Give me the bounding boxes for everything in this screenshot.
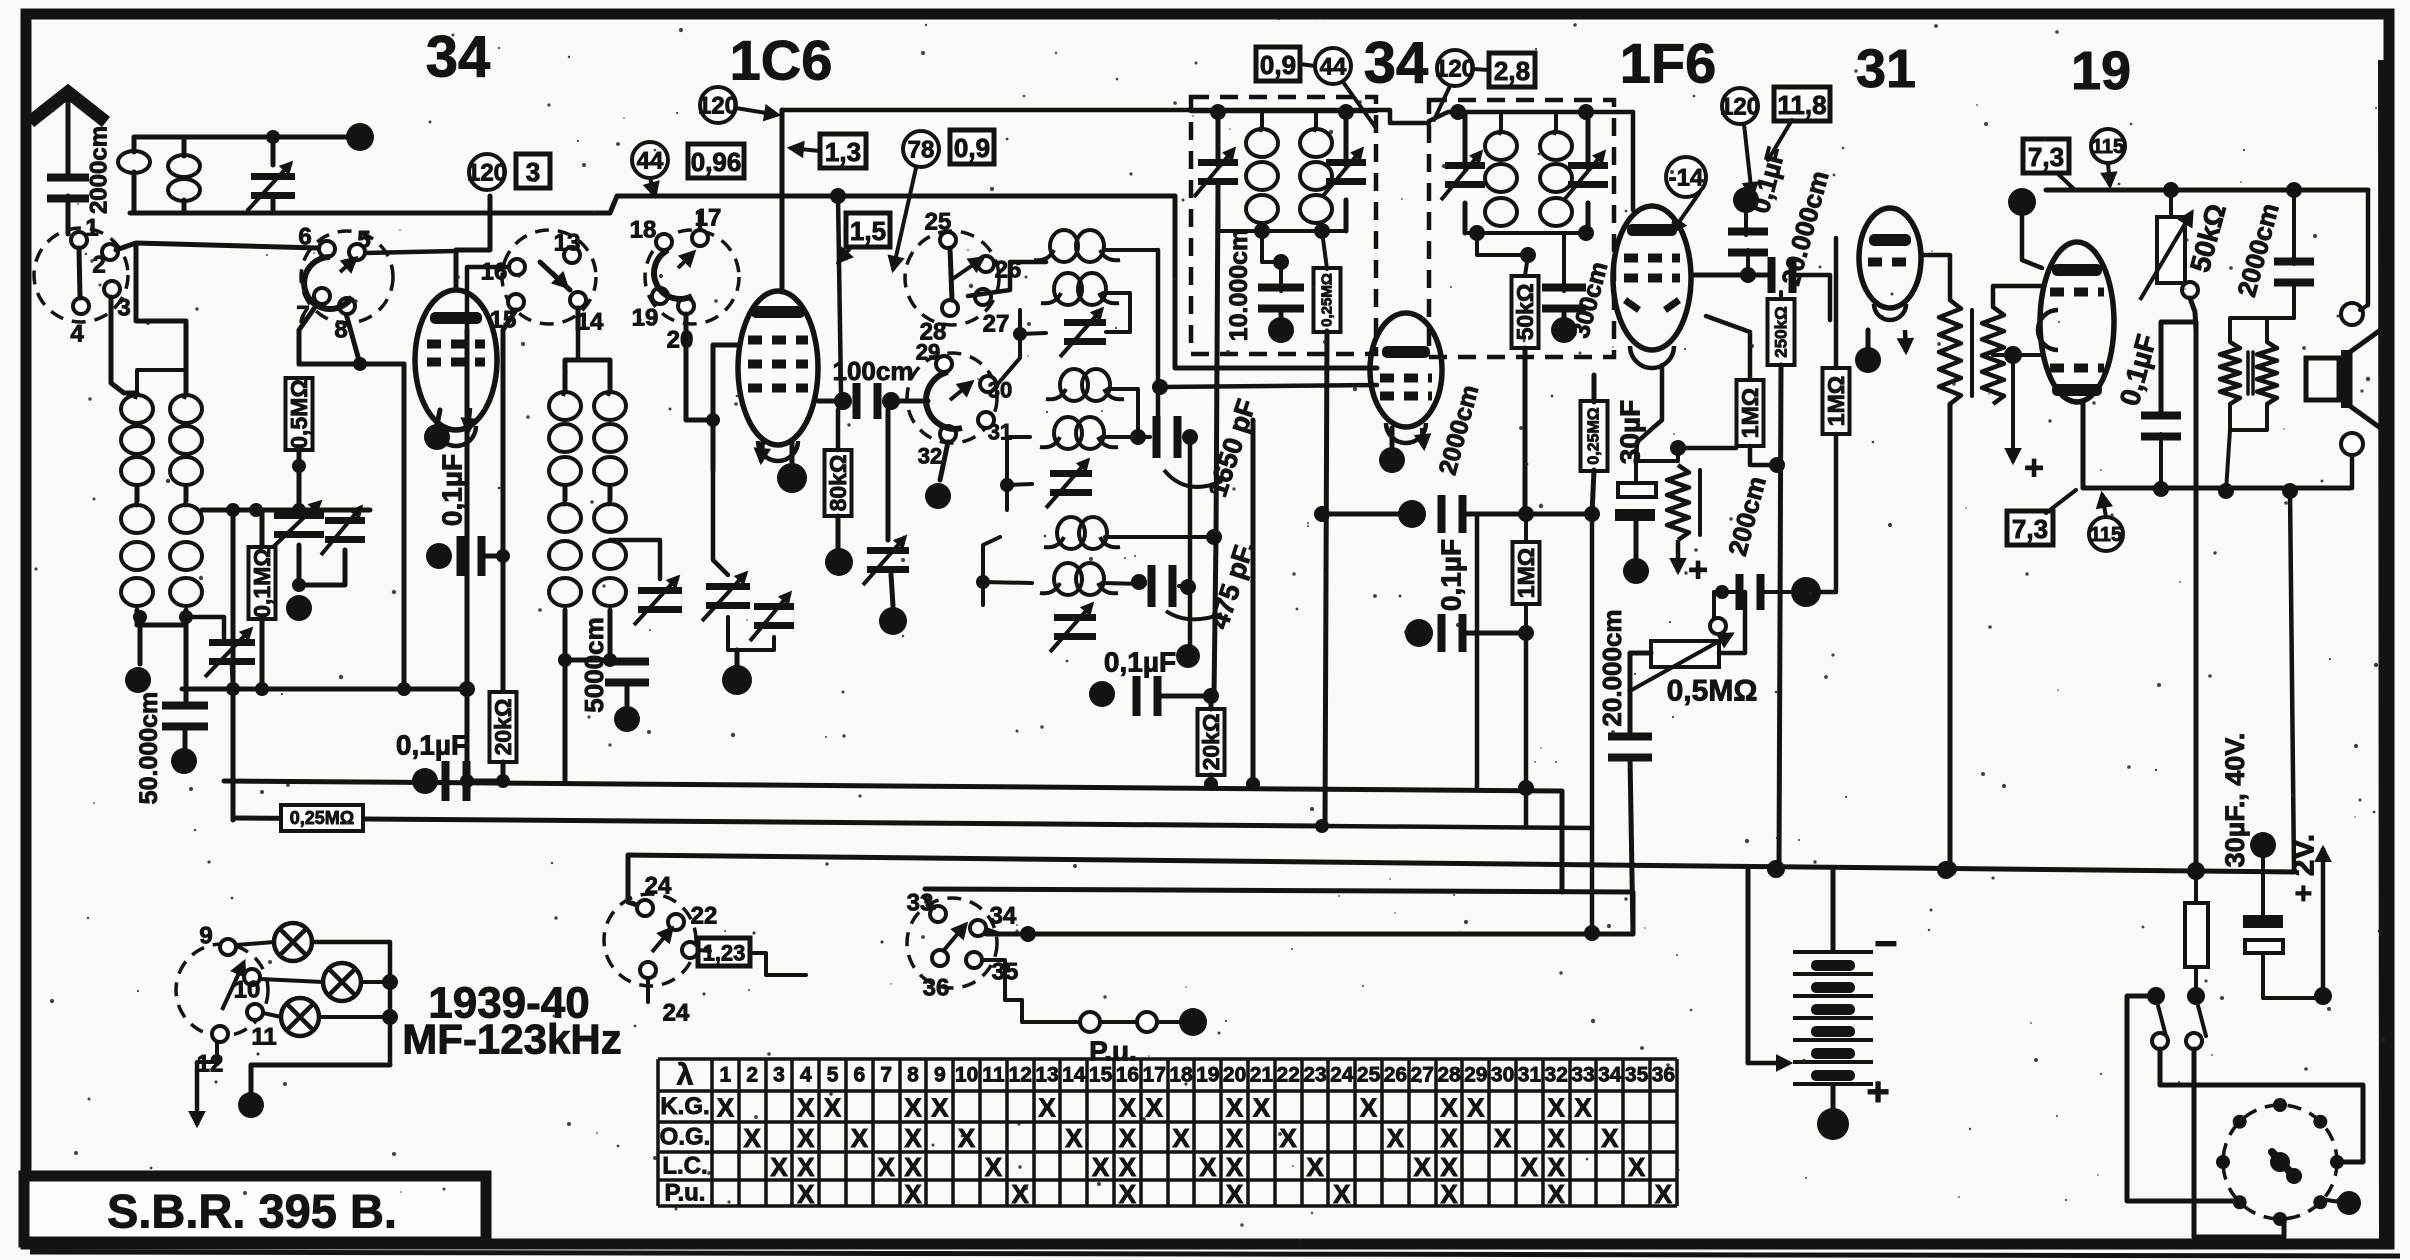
svg-text:5000cm: 5000cm bbox=[579, 617, 609, 712]
circled 120 (c) bbox=[1435, 50, 1475, 86]
svg-text:25: 25 bbox=[1357, 1064, 1381, 1087]
label 0,1uF c bbox=[1104, 647, 1176, 678]
svg-text:20kΩ: 20kΩ bbox=[1198, 714, 1224, 771]
pin 24b bbox=[640, 962, 656, 978]
svg-text:8: 8 bbox=[334, 317, 347, 344]
wire pin3 to coil bbox=[111, 297, 137, 393]
wire y385 to T3 bbox=[1160, 385, 1377, 387]
wire pot left bbox=[1630, 653, 1651, 737]
label 0,1uF a bbox=[437, 454, 468, 526]
svg-text:X: X bbox=[1226, 1179, 1244, 1209]
circled 120 (b) bbox=[698, 87, 738, 123]
wire varcap down bbox=[271, 137, 276, 213]
trimmer osc bbox=[634, 577, 682, 625]
switch blade b bbox=[2196, 998, 2206, 1036]
pin 7 bbox=[314, 288, 330, 304]
bus wire L5 bbox=[986, 932, 1633, 937]
junction y514 b bbox=[1518, 506, 1534, 522]
IF transformer 1 box bbox=[1191, 97, 1376, 354]
label pin 16 bbox=[481, 259, 508, 286]
pin 33 bbox=[930, 906, 946, 922]
junction IF2 bottom a bbox=[1469, 225, 1485, 241]
wire pin8 to y364 bbox=[345, 310, 360, 364]
junction IF1 top a bbox=[1210, 104, 1226, 120]
pin 2 bbox=[102, 244, 118, 260]
pin 1 bbox=[71, 232, 87, 248]
svg-text:X: X bbox=[1226, 1123, 1244, 1153]
svg-text:24: 24 bbox=[663, 1000, 690, 1027]
svg-text:80kΩ: 80kΩ bbox=[825, 455, 851, 512]
resistor 20kΩ (b) bbox=[1198, 709, 1225, 775]
svg-text:X: X bbox=[1119, 1093, 1137, 1123]
circled 115 (a) bbox=[2091, 129, 2125, 163]
junction coupling bbox=[2004, 346, 2022, 364]
svg-text:X: X bbox=[1440, 1093, 1458, 1123]
svg-text:34: 34 bbox=[990, 903, 1017, 930]
svg-text:16: 16 bbox=[481, 259, 508, 286]
terminal dot top bbox=[346, 123, 374, 151]
switch pole a dot bbox=[2147, 987, 2165, 1005]
terminal dot 30uF bbox=[1623, 558, 1649, 584]
label 30uF 40V bbox=[2220, 733, 2250, 868]
terminal dot padding bbox=[722, 665, 752, 695]
speaker horn bbox=[2350, 326, 2386, 432]
junction coil bottom b bbox=[179, 610, 193, 624]
svg-text:44: 44 bbox=[1320, 54, 1347, 81]
wire osc bank left b bbox=[1007, 437, 1032, 510]
switch pole b dot bbox=[2187, 987, 2205, 1005]
capacitor 100cm bbox=[853, 383, 882, 419]
junction lamp2 bbox=[382, 974, 398, 990]
osc coil B bbox=[1041, 273, 1119, 305]
junction IF1 cap bbox=[1273, 254, 1289, 270]
svg-text:19: 19 bbox=[1196, 1064, 1219, 1087]
pin 31 bbox=[978, 412, 994, 428]
wire 1C6 grid line bbox=[713, 345, 738, 470]
svg-text:21: 21 bbox=[1250, 1064, 1274, 1087]
svg-text:4: 4 bbox=[800, 1064, 812, 1087]
junction y510 b bbox=[249, 503, 263, 517]
label pin 20 bbox=[667, 327, 694, 354]
junction 1650 left bbox=[1130, 429, 1146, 445]
wire 0.1M bottom bbox=[260, 619, 265, 689]
svg-text:X: X bbox=[1065, 1123, 1083, 1153]
junction +2V bbox=[2314, 987, 2332, 1005]
junction fuse top bbox=[2187, 862, 2205, 880]
wire 1F6 screen top bbox=[1631, 112, 1636, 210]
svg-text:2000cm: 2000cm bbox=[86, 126, 113, 214]
junction x1253 y781 bbox=[1246, 777, 1260, 791]
label 0,1uF e bbox=[1745, 144, 1791, 216]
tube 31 envelope bbox=[1859, 208, 1921, 320]
wire 250k bbox=[1779, 292, 1781, 868]
boxed 1,23 bbox=[698, 938, 750, 966]
wire 1F6 to 20000cm bbox=[1691, 273, 1768, 278]
wire padding bottoms bbox=[728, 617, 774, 650]
wire 44a arrow bbox=[646, 178, 658, 196]
svg-text:26: 26 bbox=[1384, 1064, 1407, 1087]
terminal dot lamps bbox=[238, 1092, 264, 1118]
svg-text:X: X bbox=[1119, 1123, 1137, 1153]
wire trimmer bottom bbox=[891, 574, 893, 606]
wire transformer bottom bbox=[2230, 404, 2267, 430]
wire pin5 to grid cap bbox=[365, 251, 456, 253]
wire coils CD right bbox=[1102, 389, 1150, 437]
wire 20k b bbox=[1209, 696, 1214, 786]
wire electrolytic 40V bbox=[2263, 858, 2314, 998]
label pin 5 bbox=[357, 227, 370, 254]
svg-text:27: 27 bbox=[983, 311, 1010, 338]
dial terminal dot bbox=[2337, 1191, 2361, 1215]
label tube type 1F6 bbox=[1620, 32, 1717, 95]
trimmer right bbox=[321, 507, 365, 555]
padding capacitor pair a bbox=[702, 573, 750, 621]
trimmer C bbox=[1050, 604, 1096, 652]
capacitor 200cm (b) bbox=[1736, 574, 1765, 610]
pin 8 bbox=[339, 298, 355, 314]
label pin 10 bbox=[234, 977, 261, 1004]
switch blade S2 bbox=[304, 257, 356, 309]
capacitor 0,1µF (b) bbox=[442, 761, 471, 801]
pin 18 bbox=[656, 234, 672, 250]
output transformer secondary bbox=[2257, 342, 2277, 404]
svg-text:X: X bbox=[1548, 1093, 1566, 1123]
wire 1,3 arrow bbox=[790, 143, 820, 156]
wire IF1 varcap leads bbox=[1218, 112, 1346, 231]
antenna coil L2b bbox=[170, 501, 202, 606]
svg-text:S.B.R. 395 B.: S.B.R. 395 B. bbox=[107, 1185, 397, 1238]
wire speaker top bbox=[2360, 190, 2368, 310]
grid resistor 31 bbox=[1939, 300, 1961, 404]
antenna coil L1a bbox=[121, 393, 153, 485]
wire 0.1M top bbox=[260, 510, 265, 547]
svg-text:1MΩ: 1MΩ bbox=[1823, 376, 1849, 426]
junction osc b bbox=[1000, 478, 1014, 492]
wire 100cm to S5 bbox=[891, 399, 928, 404]
wire 475 right stub bbox=[1179, 586, 1188, 587]
circled 78 bbox=[903, 131, 939, 167]
pin 9 bbox=[220, 939, 236, 955]
svg-text:10.000cm: 10.000cm bbox=[1225, 229, 1253, 342]
IF transformer 2 box bbox=[1429, 100, 1614, 357]
svg-text:31: 31 bbox=[1856, 39, 1916, 99]
pin 3 bbox=[104, 281, 120, 297]
resistor 50kΩ (IF2) bbox=[1512, 276, 1539, 348]
svg-text:2: 2 bbox=[92, 252, 105, 279]
tube 34 IF envelope bbox=[1370, 313, 1442, 443]
table row K.G. bbox=[660, 1093, 1592, 1123]
svg-text:19: 19 bbox=[2071, 41, 2131, 101]
label pin 3 bbox=[117, 295, 130, 322]
antenna bbox=[30, 92, 106, 180]
wire pin17 up bbox=[698, 213, 703, 230]
junction IF2 bottom b bbox=[1578, 225, 1594, 241]
wire T3 grid bbox=[1175, 196, 1377, 368]
wire 20000b down bbox=[1630, 757, 1633, 934]
pin 22 bbox=[668, 914, 684, 930]
wire coupling down arrow bbox=[2007, 355, 2020, 462]
wire plate 1C6 top bbox=[780, 110, 785, 292]
svg-text:34: 34 bbox=[426, 25, 491, 90]
svg-text:-14: -14 bbox=[1669, 165, 1704, 192]
pickup terminal a bbox=[1080, 1012, 1100, 1032]
table header row bbox=[677, 1059, 1675, 1092]
svg-text:11: 11 bbox=[982, 1064, 1005, 1087]
terminal dot IF1 bbox=[1268, 317, 1294, 343]
svg-text:X: X bbox=[797, 1152, 815, 1182]
capacitor 0,1µF (f) bbox=[2141, 412, 2181, 441]
svg-text:13: 13 bbox=[1035, 1064, 1058, 1087]
wire osc spine x1216 bbox=[1214, 185, 1218, 696]
wire coil to cap 50000 bbox=[184, 625, 189, 706]
junction y689 a bbox=[226, 682, 240, 696]
pin 25 bbox=[940, 232, 956, 248]
wire 44b diag bbox=[1343, 82, 1376, 128]
label 475 pF bbox=[1204, 538, 1260, 633]
svg-text:X: X bbox=[1253, 1093, 1271, 1123]
wire IF1 cap dot bbox=[1279, 308, 1284, 318]
svg-text:20: 20 bbox=[1223, 1064, 1246, 1087]
junction L2 x1322 bbox=[1315, 819, 1329, 833]
wire IF1 res top bbox=[1322, 231, 1327, 269]
tube 31 leads bbox=[1868, 330, 1912, 352]
wire pin34 right bbox=[986, 929, 1000, 934]
pin 30 bbox=[980, 376, 996, 392]
wire x467 bbox=[465, 330, 470, 781]
svg-text:34: 34 bbox=[1598, 1064, 1622, 1087]
coupling coil L3a bbox=[118, 151, 150, 173]
terminal dot 19 top bbox=[2008, 188, 2036, 216]
switch blade S9 bbox=[222, 962, 245, 1010]
svg-text:18: 18 bbox=[1169, 1064, 1193, 1087]
wire cap c bbox=[1161, 694, 1211, 699]
label 20.000cm (b) bbox=[1597, 609, 1627, 726]
circled -14 bbox=[1666, 157, 1706, 197]
wire coupling mid bbox=[1993, 353, 2042, 357]
svg-text:13: 13 bbox=[554, 230, 581, 257]
wire pin20 down bbox=[686, 314, 713, 420]
svg-text:7: 7 bbox=[880, 1064, 892, 1087]
wire long horizontal y213 bbox=[130, 196, 1175, 213]
wire transformer to y488 bbox=[2226, 430, 2230, 491]
output transformer core bbox=[2248, 352, 2253, 394]
terminal dot trimmer bbox=[879, 607, 907, 635]
wire cap to dot bbox=[183, 726, 188, 748]
osc coil A bbox=[1034, 230, 1120, 262]
circled 115 (b) bbox=[2089, 517, 2123, 551]
wire speaker bottom bbox=[2350, 455, 2355, 488]
tube 1C6 ground dot bbox=[777, 463, 807, 493]
wire bias to 1M bbox=[1678, 446, 1736, 451]
junction pin34 bbox=[1020, 926, 1036, 942]
padding capacitor left bbox=[270, 502, 324, 550]
resistor 1MΩ (c) bbox=[1823, 368, 1850, 434]
terminal dot y514 bbox=[1398, 500, 1426, 528]
label pin 12 bbox=[197, 1051, 224, 1078]
IF2 top wire bbox=[1429, 112, 1633, 121]
svg-text:X: X bbox=[1199, 1152, 1217, 1182]
svg-text:X: X bbox=[770, 1152, 788, 1182]
label pin 24 bottom bbox=[663, 1000, 690, 1027]
svg-text:X: X bbox=[904, 1093, 922, 1123]
label pin 4 bbox=[70, 321, 84, 348]
svg-text:3: 3 bbox=[526, 157, 540, 187]
wire pin16 left bbox=[467, 267, 509, 335]
pin 14 bbox=[570, 292, 586, 308]
band switch section S9 bbox=[176, 944, 268, 1036]
svg-text:X: X bbox=[1333, 1179, 1351, 1209]
pin 5 bbox=[349, 244, 365, 260]
capacitor 50000cm bbox=[162, 702, 208, 731]
label pin 7 bbox=[296, 302, 309, 329]
label pin 1 bbox=[85, 215, 98, 242]
bus L2 right end bbox=[1322, 826, 1592, 828]
capacitor IF2 300cm bbox=[1542, 284, 1586, 313]
label pin 19 bbox=[632, 305, 659, 332]
IF1 trimmer left bbox=[1194, 149, 1238, 197]
bias resistor zigzag bbox=[1667, 465, 1689, 540]
label 30uF bbox=[1615, 400, 1646, 464]
svg-text:X: X bbox=[1119, 1152, 1137, 1182]
wire cap e bbox=[1746, 213, 1748, 275]
capacitor 20000cm bbox=[1768, 257, 1797, 293]
label 20.000cm (a) bbox=[1775, 168, 1834, 289]
terminal dot mid bbox=[286, 595, 312, 621]
wire B+ top y111 bbox=[782, 110, 1429, 123]
svg-text:0,9: 0,9 bbox=[954, 133, 990, 163]
svg-text:34: 34 bbox=[1364, 31, 1429, 96]
junction varcap bottom bbox=[292, 578, 306, 592]
svg-text:X: X bbox=[744, 1123, 762, 1153]
wire 20000 right bbox=[1796, 275, 1830, 320]
wire pot wiper bbox=[1712, 592, 1716, 618]
svg-text:2,8: 2,8 bbox=[1494, 56, 1530, 86]
label pin 13 bbox=[554, 230, 581, 257]
terminal dot 0.1uF a bbox=[426, 543, 452, 569]
wire 1Mb bottom bbox=[1750, 446, 1777, 465]
junction y488 a bbox=[2153, 481, 2169, 497]
pin 29 bbox=[936, 356, 952, 372]
wire cap to x503 bbox=[485, 554, 503, 559]
label 2000cm T3 bbox=[1434, 382, 1485, 478]
switch blade S7 bbox=[652, 928, 672, 952]
label 2000cm speaker bbox=[2231, 200, 2285, 300]
resistor 0,25MΩ (IF1) bbox=[1314, 268, 1341, 332]
tube 1C6 cathode leads bbox=[756, 440, 792, 464]
svg-text:X: X bbox=[1601, 1123, 1619, 1153]
wire AVC res bbox=[1592, 375, 1594, 514]
pin 4 bbox=[73, 298, 89, 314]
wire switch to lamp line bbox=[2127, 996, 2240, 1201]
junction y510 a bbox=[226, 503, 240, 517]
svg-text:1: 1 bbox=[720, 1064, 732, 1087]
bus wire L2 bbox=[233, 818, 1322, 826]
wire trimmer osc bbox=[610, 540, 660, 579]
wire bias top bbox=[1636, 448, 1678, 461]
svg-text:X: X bbox=[1655, 1179, 1673, 1209]
label 1650 pF bbox=[1202, 396, 1262, 501]
svg-text:250kΩ: 250kΩ bbox=[1772, 306, 1791, 357]
junction y488 b bbox=[2218, 483, 2234, 499]
wire L3 to battery minus bbox=[1831, 868, 1836, 950]
svg-text:100cm: 100cm bbox=[833, 356, 914, 386]
boxed 11,8 bbox=[1774, 87, 1830, 121]
svg-text:X: X bbox=[797, 1123, 815, 1153]
svg-text:6: 6 bbox=[298, 224, 311, 251]
wire 80k top bbox=[838, 401, 843, 450]
terminal dot antenna coil bbox=[125, 667, 151, 693]
wire T6 bottom lead bbox=[2081, 402, 2086, 488]
svg-text:X: X bbox=[1226, 1093, 1244, 1123]
capacitor 0,1µF (c) bbox=[1133, 676, 1162, 716]
svg-text:50kΩ: 50kΩ bbox=[1512, 284, 1538, 341]
wire 2000sp bbox=[2292, 190, 2296, 318]
band switch section S6 bbox=[907, 353, 997, 443]
label pin 24 top bbox=[645, 873, 672, 900]
svg-text:X: X bbox=[1226, 1152, 1244, 1182]
dial lamp 3 bbox=[281, 998, 319, 1036]
wire pin33 up bbox=[925, 898, 934, 908]
svg-text:4: 4 bbox=[70, 321, 84, 348]
wire 120d arrow bbox=[1744, 124, 1757, 196]
terminal dot 30uF 40V bbox=[2250, 832, 2276, 858]
label 0,1uF d bbox=[1436, 539, 1467, 611]
svg-text:1F6: 1F6 bbox=[1620, 32, 1717, 95]
choke line 31 bbox=[1970, 310, 1974, 396]
bus wire L4 bbox=[925, 889, 1633, 934]
svg-text:X: X bbox=[1119, 1179, 1137, 1209]
bus wire L3 bbox=[628, 855, 2294, 872]
svg-text:5: 5 bbox=[357, 227, 370, 254]
junction osc c bbox=[976, 575, 990, 589]
capacitor 0,1µF (e) bbox=[1728, 228, 1768, 257]
svg-text:1C6: 1C6 bbox=[730, 29, 833, 92]
capacitor 20000cm (b) bbox=[1608, 733, 1652, 762]
terminal dot 0.1uF e bbox=[1733, 187, 1759, 213]
junction y364 bbox=[353, 357, 367, 371]
junction x1158 y387 bbox=[1152, 379, 1168, 395]
RF coil L5b bbox=[594, 500, 626, 606]
svg-text:K.G.: K.G. bbox=[660, 1093, 709, 1120]
svg-text:22: 22 bbox=[691, 903, 718, 930]
svg-text:X: X bbox=[717, 1093, 735, 1123]
wire IF1 bottom bbox=[1218, 229, 1346, 233]
junction IF2 cap bbox=[1520, 247, 1536, 263]
wire IF2 cap bbox=[1562, 233, 1566, 291]
resistor 0,1MΩ bbox=[249, 547, 276, 619]
pin 24a bbox=[637, 900, 653, 916]
wire x2196 vertical bbox=[2194, 322, 2199, 868]
svg-text:X: X bbox=[1548, 1152, 1566, 1182]
svg-text:24: 24 bbox=[1330, 1064, 1354, 1087]
pin 34 bbox=[970, 920, 986, 936]
capacitor 0,1µF (d) bbox=[1438, 614, 1467, 652]
svg-text:X: X bbox=[904, 1179, 922, 1209]
boxed 1,5 bbox=[846, 213, 890, 247]
circled 120 (d) bbox=[1720, 88, 1760, 124]
svg-text:0,1µF: 0,1µF bbox=[396, 730, 468, 761]
svg-text:X: X bbox=[1521, 1152, 1539, 1182]
osc coil E bbox=[1044, 517, 1120, 549]
label 50kΩ bbox=[2184, 201, 2232, 276]
pin 13 bbox=[564, 247, 580, 263]
wire 1650 right stub bbox=[1184, 435, 1190, 439]
svg-text:3: 3 bbox=[117, 295, 130, 322]
wire pin12 arrow bbox=[191, 1042, 217, 1125]
svg-text:X: X bbox=[1440, 1123, 1458, 1153]
boxed 0,9 (a) bbox=[950, 130, 994, 164]
svg-text:X: X bbox=[878, 1152, 896, 1182]
